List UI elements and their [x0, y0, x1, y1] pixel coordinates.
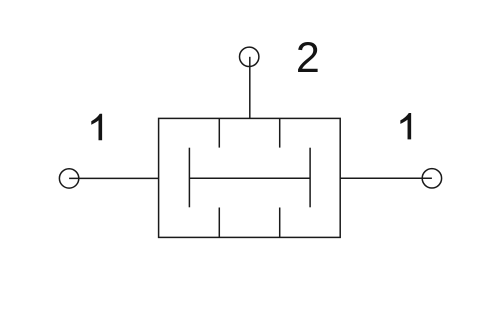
shuttle left bar: [188, 148, 190, 208]
port 1 right circle: [422, 169, 441, 188]
label 1 (right port): [400, 113, 411, 139]
bottom-left valve seat: [218, 208, 220, 238]
wire port 1 left to body: [69, 177, 159, 179]
label 1 (left port): [91, 114, 102, 140]
wire body to port 1 right: [340, 177, 432, 179]
port 2 top circle: [240, 47, 259, 66]
bottom-right valve seat: [279, 208, 281, 238]
shuttle right bar: [309, 148, 311, 208]
svg-text:2: 2: [296, 34, 320, 82]
top-left valve seat: [218, 118, 220, 147]
top-right valve seat: [279, 118, 281, 147]
shuttle cross bar: [189, 177, 310, 179]
port 1 left circle: [59, 169, 78, 188]
valve body rectangle: [159, 118, 341, 237]
wire port 2 to body top: [249, 57, 251, 119]
